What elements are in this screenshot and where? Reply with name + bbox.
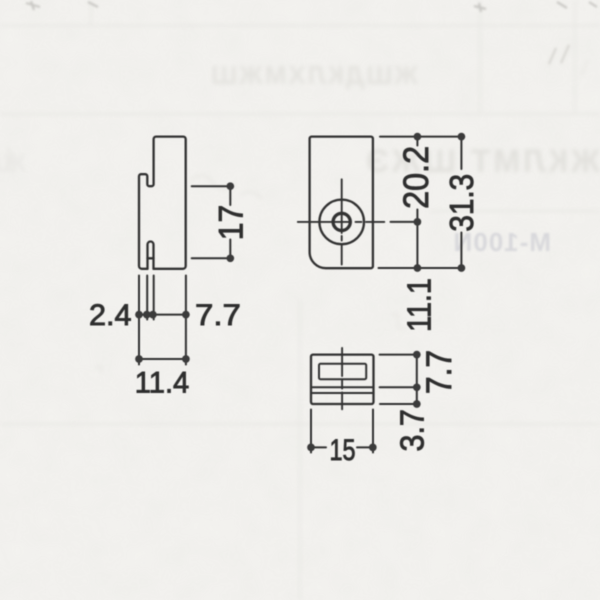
svg-text:2.4: 2.4 xyxy=(89,299,132,332)
svg-text:20.2: 20.2 xyxy=(397,146,437,209)
svg-text:ЖЛ: ЖЛ xyxy=(0,148,27,178)
svg-text:17: 17 xyxy=(212,205,250,240)
svg-text:7.7: 7.7 xyxy=(421,350,460,394)
svg-text:7.7: 7.7 xyxy=(195,297,241,331)
svg-text:15: 15 xyxy=(329,433,355,466)
svg-text:11.1: 11.1 xyxy=(401,278,438,332)
svg-text:11.4: 11.4 xyxy=(135,366,189,399)
svg-text:ЖШДКЛХМЖШ: ЖШДКЛХМЖШ xyxy=(209,60,419,90)
svg-text:31.3: 31.3 xyxy=(444,174,481,232)
svg-text:3.7: 3.7 xyxy=(393,409,431,451)
